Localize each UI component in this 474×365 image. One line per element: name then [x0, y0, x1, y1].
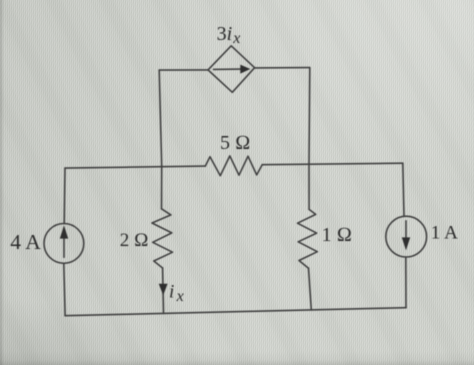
wire 2ohm branch upper: [161, 166, 163, 209]
label 1 A: [431, 222, 458, 243]
resistor R2 2ohm: [152, 209, 173, 268]
svg-text:x: x: [232, 30, 240, 47]
svg-text:4 A: 4 A: [10, 230, 41, 254]
arrowhead ix: [159, 284, 168, 296]
wire 2ohm branch lower with ix arrow: [162, 268, 165, 313]
wire left vertical lower: [64, 263, 65, 315]
wire 1ohm branch upper: [308, 164, 310, 209]
wire right vertical lower: [405, 257, 407, 308]
wire middle-right segment: [262, 163, 403, 165]
label 1 ohm: [322, 224, 352, 246]
svg-text:5 Ω: 5 Ω: [220, 132, 250, 154]
wire left vertical upper: [63, 168, 66, 224]
svg-text:3i: 3i: [217, 23, 233, 45]
wire top-left segment: [159, 69, 208, 71]
svg-text:1 A: 1 A: [431, 222, 458, 243]
wire middle-left segment: [65, 166, 205, 168]
svg-text:i: i: [169, 281, 174, 302]
arrow inside diamond: [214, 65, 251, 74]
wire top-left vertical: [159, 70, 162, 166]
current source I1 4A circle: [44, 224, 84, 264]
current source I2 1A circle: [386, 216, 427, 257]
arrow inside 4A source: [60, 225, 68, 257]
label 4 A: [10, 230, 41, 254]
resistor R3 1ohm: [298, 209, 318, 268]
svg-text:x: x: [176, 288, 184, 305]
label ix: [169, 281, 184, 305]
svg-text:2 Ω: 2 Ω: [120, 230, 149, 251]
svg-text:1 Ω: 1 Ω: [322, 224, 352, 246]
dependent current source U1 diamond 3ix: [208, 46, 255, 93]
label 5 ohm: [220, 132, 250, 154]
wire right vertical upper: [403, 163, 404, 216]
label 2 ohm: [120, 230, 149, 251]
wire bottom: [65, 308, 406, 316]
arrow inside 1A source: [402, 221, 410, 251]
wire 1ohm branch lower: [309, 268, 312, 310]
wire top-right segment: [255, 67, 310, 69]
wire top-right vertical: [308, 68, 311, 165]
resistor R1 5ohm: [205, 156, 262, 176]
label 3ix: [217, 23, 241, 47]
